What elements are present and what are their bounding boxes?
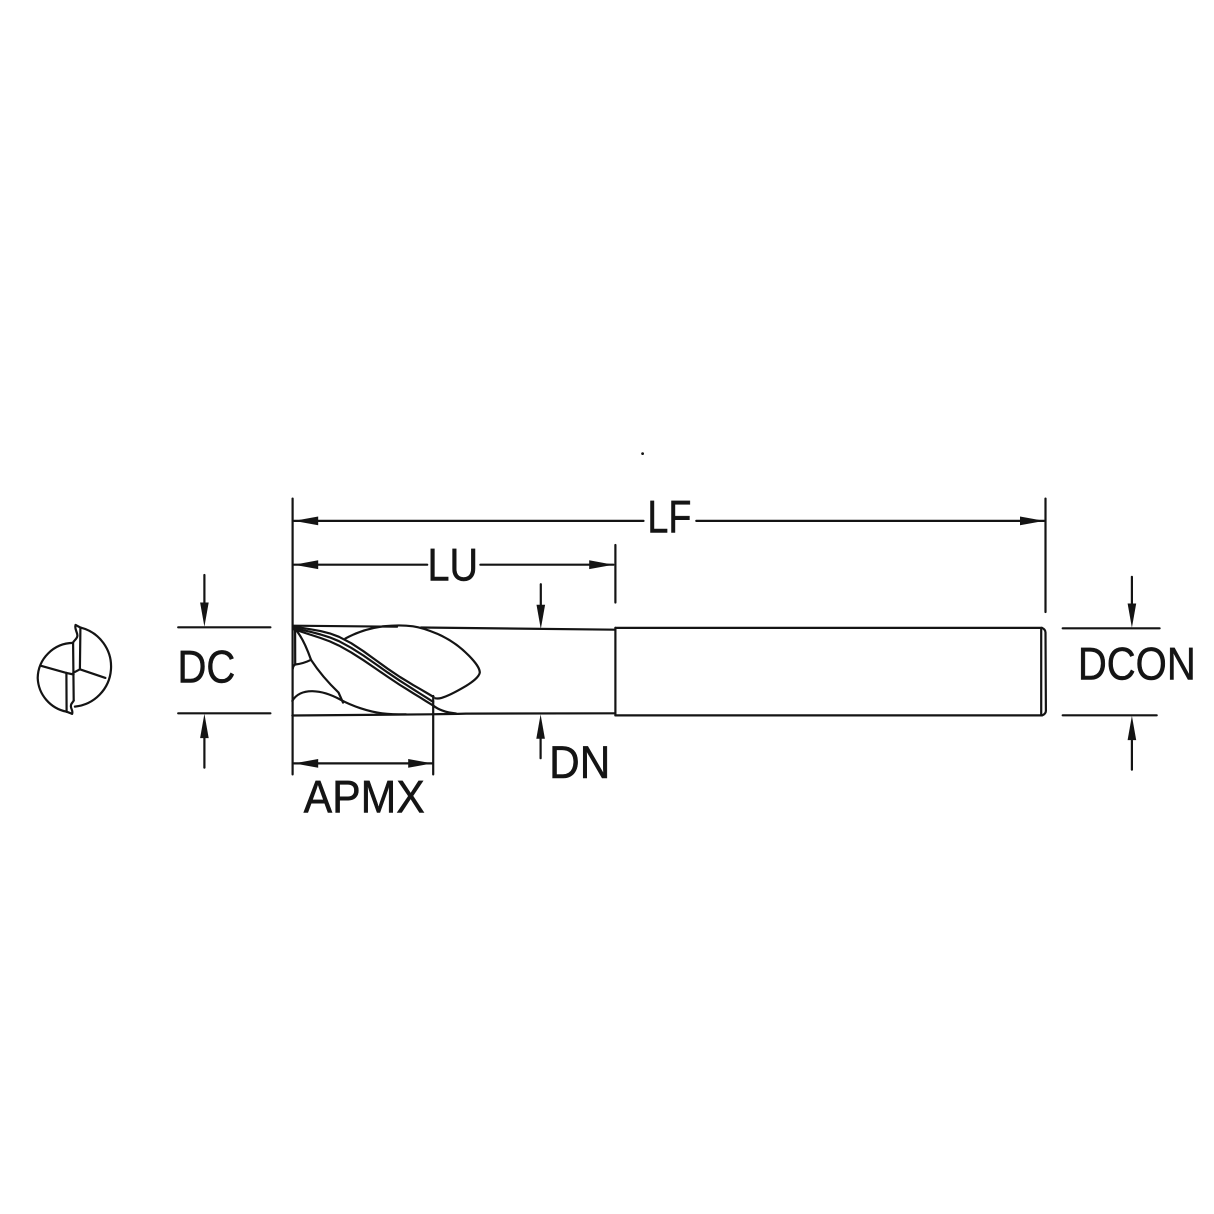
end view outer right arc	[75, 628, 111, 707]
end view center cutting edge line	[72, 643, 75, 701]
flute band end merge curve	[433, 705, 456, 713]
LU left arrowhead	[294, 560, 318, 569]
DCON down arrow shaft	[1131, 577, 1133, 605]
end view left radial line	[41, 666, 74, 675]
side view top edge flute silhouette	[293, 626, 397, 627]
side view shoulder step line	[614, 628, 616, 716]
flute lower bump curve	[292, 691, 406, 714]
APMX right arrowhead	[408, 759, 432, 768]
DCON top extension line	[1063, 627, 1160, 629]
LF dimension line right segment	[696, 520, 1044, 522]
APMX left arrowhead	[294, 759, 318, 768]
end view upper gash S-curve	[73, 625, 78, 643]
DC down arrowhead	[200, 603, 209, 627]
LU right extension line	[614, 545, 616, 603]
DC up arrowhead	[200, 714, 209, 738]
flute big lobe curve	[345, 625, 480, 698]
end view web bottom edge	[67, 712, 73, 714]
side view shank bottom edge	[615, 714, 1042, 716]
DN up arrow shaft	[539, 739, 541, 759]
flute spiral band line A	[293, 626, 434, 697]
DC top extension line	[178, 626, 270, 628]
DN down arrow shaft	[540, 584, 542, 605]
flute gash bottom curve	[293, 660, 311, 669]
side view neck top edge	[421, 628, 615, 630]
LF right extension line	[1044, 499, 1046, 612]
side view left edge / LF-LU-APMX extension line	[292, 499, 294, 775]
DCON down arrowhead	[1128, 604, 1137, 628]
svg-text:APMX: APMX	[304, 770, 425, 822]
DN up arrowhead	[536, 714, 545, 738]
LF right arrowhead	[1020, 517, 1044, 526]
svg-text:LU: LU	[428, 538, 479, 590]
DN down arrowhead	[537, 605, 546, 629]
LF left arrowhead	[294, 517, 318, 526]
end view web top edge	[76, 625, 81, 628]
DC up arrow shaft	[203, 738, 205, 768]
flute spiral band line C	[293, 629, 433, 705]
side view shank end face line	[1040, 629, 1042, 715]
LU right arrowhead	[589, 560, 613, 569]
svg-text:LF: LF	[647, 490, 691, 542]
end view outer left arc	[38, 643, 73, 712]
LU dimension line left segment	[294, 564, 427, 566]
LF dimension line left segment	[294, 520, 644, 522]
APMX dimension line	[294, 762, 432, 764]
svg-text:DCON: DCON	[1078, 638, 1196, 690]
APMX right extension line	[432, 696, 434, 774]
end view lower gash S-curve	[71, 701, 74, 714]
svg-text:DN: DN	[549, 736, 610, 788]
DCON up arrow shaft	[1131, 741, 1133, 770]
flute spiral band line B	[293, 627, 433, 702]
end view right radial line	[73, 669, 105, 678]
flute valley curve	[311, 660, 343, 703]
DCON up arrowhead	[1128, 716, 1137, 740]
DC bottom extension line	[178, 712, 270, 714]
side view bottom edge flute to neck	[292, 713, 615, 715]
svg-text:DC: DC	[177, 641, 235, 693]
flute gash front curve	[295, 629, 311, 660]
stray dot artifact	[641, 452, 644, 455]
LU dimension line right segment	[480, 564, 613, 566]
DC down arrow shaft	[203, 575, 205, 604]
end view lower web left line	[65, 673, 67, 712]
side view tooth face sliver line	[294, 626, 296, 664]
end view upper web right line	[79, 628, 82, 669]
DCON bottom extension line	[1063, 714, 1157, 716]
side view shank top edge	[615, 627, 1042, 629]
side view shank end chamfer outline	[1042, 628, 1046, 716]
